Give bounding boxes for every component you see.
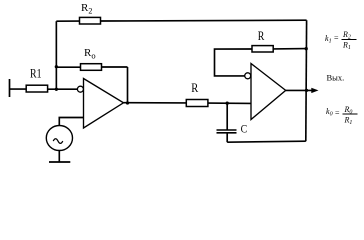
- wire: top corner to R2: [56, 20, 79, 22]
- wire: DA2 output: [286, 89, 313, 91]
- op-amp DA2: [251, 64, 286, 120]
- svg-text:R1: R1: [342, 40, 351, 51]
- wire: node A up to top feedback corner: [55, 21, 57, 89]
- node B (junction to Ro): [55, 65, 58, 68]
- wire: capacitor branch down from node C: [226, 103, 228, 129]
- wire: DA1 output to series R: [124, 102, 187, 104]
- svg-text:k0: k0: [326, 107, 333, 118]
- svg-text:C: C: [241, 122, 248, 136]
- output arrow: [311, 88, 318, 93]
- wire: Ro to corner above DA1 output: [102, 66, 128, 68]
- junction at DA1 output (Ro feedback): [126, 101, 129, 104]
- svg-text:=: =: [335, 109, 340, 118]
- wire: source to ground: [58, 150, 60, 162]
- svg-text:k1: k1: [325, 34, 332, 45]
- svg-text:=: =: [334, 34, 339, 43]
- inversion circle on DA2 inverting input: [245, 73, 251, 79]
- resistor Ro: [81, 64, 102, 71]
- wire: series R to op-amp DA2 input: [208, 102, 251, 104]
- tilde inside source: [53, 139, 63, 144]
- node C junction (R, C, DA2 input): [226, 102, 229, 105]
- ground: [49, 161, 70, 163]
- wire: down to DA1 output node: [127, 67, 129, 103]
- inversion circle on DA1 inverting input: [77, 86, 83, 92]
- svg-text:R1: R1: [344, 116, 353, 127]
- wire: input terminal to R1: [10, 88, 27, 90]
- input terminal: [9, 79, 11, 97]
- wire: node B to Ro: [56, 66, 80, 68]
- wire: DA2 inverting input feedback loop: [215, 49, 253, 76]
- svg-text:Вых.: Вых.: [327, 73, 345, 83]
- resistor R (series): [186, 100, 208, 107]
- wire: bottom rail to right vertical: [227, 141, 306, 142]
- svg-text:R: R: [258, 29, 265, 43]
- formula k1 = R2/R1: [325, 30, 357, 51]
- wire: DA1 non-inverting input: [59, 118, 83, 127]
- AC source G1: [46, 126, 72, 151]
- resistor R2: [80, 17, 101, 24]
- svg-text:R1: R1: [30, 66, 42, 81]
- svg-text:Rо: Rо: [84, 47, 96, 61]
- wire: R2 to right vertical: [101, 19, 307, 22]
- resistor R (feedback of DA2): [252, 46, 273, 52]
- node A (junction of R1, R2, Ro): [55, 88, 58, 91]
- formula k0 = R0/R1: [326, 105, 358, 126]
- op-amp DA1: [84, 79, 124, 129]
- capacitor C: [217, 129, 237, 131]
- svg-text:R2: R2: [81, 2, 92, 16]
- svg-text:R: R: [191, 80, 198, 95]
- wire: R1 to op-amp DA1 inverting input: [48, 88, 78, 90]
- wire: feedback R to right vertical: [274, 48, 307, 50]
- wire: right vertical (output bus): [305, 20, 308, 141]
- junction DA2 output / right vertical: [305, 89, 308, 92]
- wire: capacitor to bottom rail: [226, 134, 228, 143]
- svg-text:R2: R2: [342, 30, 351, 41]
- junction feedback R / right vertical: [305, 47, 308, 50]
- resistor R1: [26, 85, 47, 92]
